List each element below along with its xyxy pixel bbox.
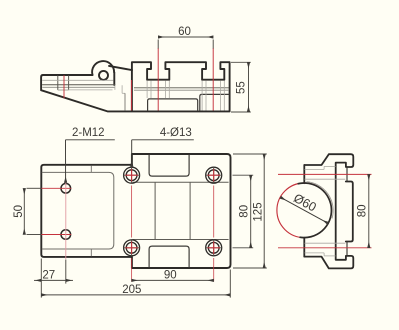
svg-text:50: 50 — [13, 205, 25, 218]
svg-text:125: 125 — [253, 202, 265, 221]
svg-text:90: 90 — [164, 269, 177, 281]
svg-text:80: 80 — [238, 205, 250, 218]
svg-text:205: 205 — [122, 284, 141, 296]
svg-text:60: 60 — [178, 26, 191, 38]
svg-text:80: 80 — [357, 205, 369, 218]
svg-text:4-Ø13: 4-Ø13 — [160, 127, 192, 139]
svg-text:2-M12: 2-M12 — [72, 127, 105, 139]
svg-text:27: 27 — [42, 270, 55, 282]
svg-text:55: 55 — [236, 81, 248, 94]
